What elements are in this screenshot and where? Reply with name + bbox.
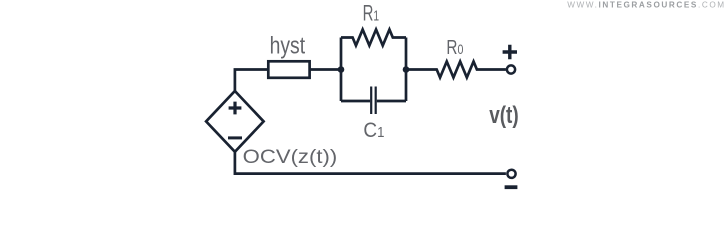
resistor R0 (zigzag) with leads [406,62,506,78]
svg-text:WWW.INTEGRASOURCES.COM: WWW.INTEGRASOURCES.COM [567,1,725,10]
resistor hyst (box) [268,61,309,78]
svg-text:R1: R1 [363,1,380,26]
terminal - (open circle) [507,170,515,178]
node A junction dot [338,66,345,73]
svg-text:C1: C1 [363,117,384,142]
resistor R1 (zigzag top branch) [341,30,406,46]
wire: bottom rail from source to terminal [235,152,506,174]
capacitor C1 (bottom branch) [341,87,406,115]
wire: source top to hyst [235,70,268,92]
svg-text:v(t): v(t) [489,102,519,129]
minus sign inside source [228,136,242,139]
wire: right vertical of RC loop [405,38,408,102]
plus sign at terminal [503,45,517,59]
svg-text:R0: R0 [446,37,463,59]
terminal + (open circle) [507,65,515,73]
plus sign inside source [229,102,242,115]
minus sign at terminal [505,185,518,189]
svg-text:hyst: hyst [270,32,306,59]
dependent source OCV(z(t)) [206,91,264,152]
wire: left vertical of RC loop [340,38,343,102]
wire: hyst to node A [310,68,341,71]
svg-text:OCV(z(t)): OCV(z(t)) [243,146,338,168]
node B junction dot [403,66,410,73]
